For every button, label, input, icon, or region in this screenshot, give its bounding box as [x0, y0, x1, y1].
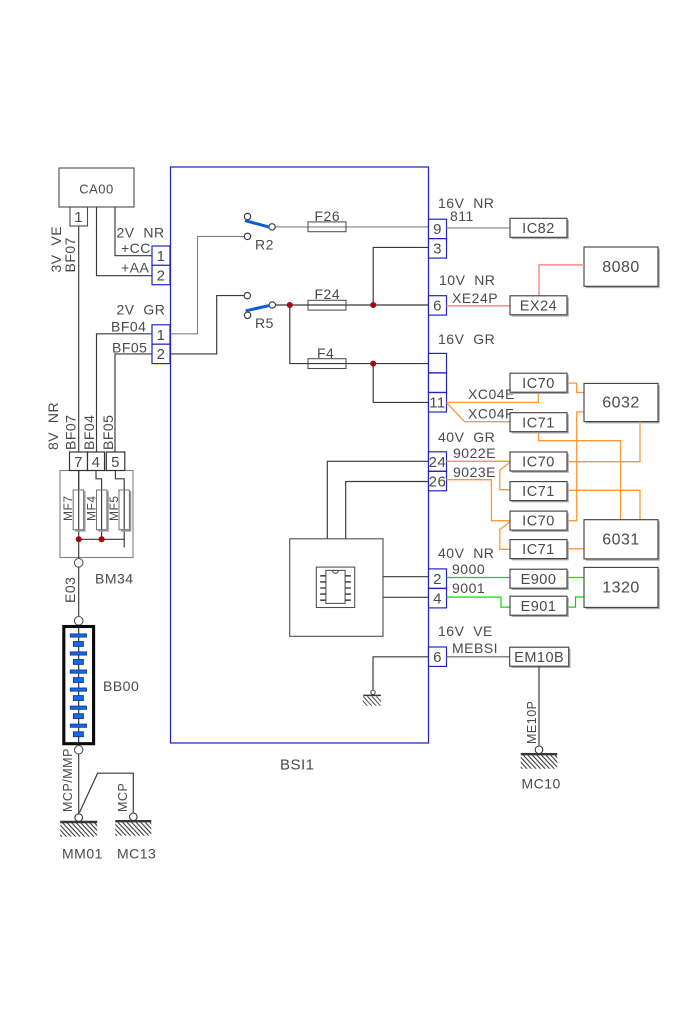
svg-text:BB00: BB00 — [103, 678, 139, 694]
ground MM01 — [48, 814, 108, 838]
wire 9001 — [447, 597, 511, 607]
wire XE24P — [447, 305, 511, 307]
svg-text:40V NR: 40V NR — [438, 545, 494, 561]
svg-text:MF5: MF5 — [107, 496, 121, 522]
svg-text:11: 11 — [429, 395, 446, 412]
unit 6032 — [584, 383, 659, 422]
svg-text:MF4: MF4 — [84, 496, 98, 522]
svg-text:3: 3 — [433, 241, 442, 258]
svg-text:BF05: BF05 — [100, 415, 116, 450]
wire BF04 to relay R2 — [171, 236, 245, 333]
unit IC82 — [510, 218, 568, 238]
wire IC71c to 6031 — [567, 548, 584, 550]
wire pin 26 to module — [346, 482, 429, 539]
svg-text:BF04: BF04 — [81, 415, 97, 450]
IC chip U1 — [316, 567, 354, 607]
unit 1320 — [584, 567, 659, 608]
pin 4 of BM34 — [88, 452, 105, 471]
svg-text:+AA: +AA — [121, 260, 150, 276]
unit 6031 — [584, 520, 659, 560]
unit IC71 b — [510, 482, 568, 502]
pin 1 BF04 of BSI1 — [152, 325, 170, 344]
svg-text:BF07: BF07 — [63, 415, 79, 450]
fuse F26 — [308, 222, 346, 232]
svg-text:IC70: IC70 — [522, 514, 555, 530]
unit 8080 — [584, 247, 659, 287]
fuse MF4 — [97, 490, 109, 531]
fuse F4 — [308, 359, 346, 369]
module box in BSI1 — [290, 539, 383, 637]
svg-text:F26: F26 — [315, 208, 341, 224]
svg-text:811: 811 — [450, 208, 474, 224]
wire module to pin 4 — [383, 596, 429, 598]
svg-text:EM10B: EM10B — [514, 650, 564, 666]
svg-text:8080: 8080 — [602, 259, 640, 276]
ground MC13 — [103, 813, 163, 837]
svg-text:16V VE: 16V VE — [438, 623, 493, 639]
wire MCP/MMP — [78, 754, 80, 814]
svg-text:E03: E03 — [62, 577, 78, 603]
svg-text:MCP: MCP — [116, 783, 130, 812]
fuse MF7 — [73, 490, 85, 531]
svg-text:BSI1: BSI1 — [280, 757, 315, 774]
wire IC71a to 6031 — [539, 432, 621, 520]
unit IC71 a — [510, 413, 568, 433]
pin 16V GR b of BSI1 — [429, 373, 447, 392]
pin 4 of BSI1 — [429, 589, 447, 608]
wire E901 to 1320 — [567, 597, 585, 607]
wire pin 6 MEBSI to internal ground — [373, 657, 429, 690]
wire module to pin 2 — [383, 576, 429, 578]
svg-text:EX24: EX24 — [520, 298, 557, 314]
wire MCP link — [80, 773, 134, 813]
svg-text:F24: F24 — [315, 286, 341, 302]
svg-text:1320: 1320 — [602, 580, 640, 597]
unit CA00 — [59, 168, 134, 207]
svg-text:9022E: 9022E — [453, 445, 496, 461]
pin 11 of BSI1 — [429, 393, 447, 412]
unit E901 — [510, 596, 568, 616]
unit EM10B — [510, 647, 570, 667]
wire 811 — [447, 227, 511, 229]
pin 9 of BSI1 — [429, 219, 447, 238]
svg-text:9001: 9001 — [452, 580, 485, 596]
svg-text:26: 26 — [429, 473, 447, 490]
svg-text:XC04F: XC04F — [468, 406, 514, 422]
wire MEBSI — [447, 656, 511, 658]
svg-text:R5: R5 — [255, 315, 274, 331]
svg-text:R2: R2 — [255, 237, 274, 253]
wire E03 — [78, 567, 80, 616]
svg-text:8V NR: 8V NR — [45, 402, 61, 450]
wire +CC from CA00 — [115, 208, 152, 256]
relay R2 — [244, 213, 275, 239]
battery BB00 — [64, 627, 94, 744]
pin 1 +CC of BSI1 — [152, 246, 170, 265]
svg-text:BF05: BF05 — [112, 340, 147, 356]
svg-text:+CC: +CC — [121, 240, 151, 256]
junction MF7 output — [76, 537, 81, 542]
svg-text:IC70: IC70 — [522, 455, 555, 471]
wire IC71b to 6031 — [567, 490, 640, 519]
svg-text:MM01: MM01 — [62, 846, 103, 862]
svg-text:2V GR: 2V GR — [117, 302, 166, 318]
wire MF7 feed — [78, 452, 80, 539]
pin 26 of BSI1 — [429, 471, 447, 490]
pin 6 MEBSI of BSI1 — [429, 647, 447, 666]
pin 2 +AA of BSI1 — [152, 265, 170, 284]
wire MF7 through — [78, 471, 80, 491]
svg-text:16V GR: 16V GR — [438, 331, 495, 347]
pin 1 of CA00 — [70, 207, 88, 226]
wire R5 to fuse F24 to pin 6 — [276, 304, 429, 306]
junction F4 output — [371, 361, 376, 366]
unit BSI1 outline — [171, 167, 429, 743]
ground MC10 — [509, 746, 569, 770]
wire pin 3 branch — [373, 247, 428, 305]
internal ground of BSI1 — [354, 690, 386, 707]
wire 9022E — [447, 460, 511, 462]
svg-text:MF7: MF7 — [61, 496, 75, 522]
wire 6032 to IC70b — [567, 422, 640, 462]
svg-text:4: 4 — [92, 454, 101, 471]
wire 9022E branch to IC71b — [500, 463, 510, 490]
wire pin 24 to module — [327, 461, 428, 539]
svg-text:6031: 6031 — [602, 531, 640, 548]
wire pin 11 branch — [373, 364, 428, 403]
svg-text:IC70: IC70 — [522, 376, 555, 392]
wire BF05 — [115, 354, 152, 452]
relay R5 — [244, 292, 275, 318]
svg-text:IC82: IC82 — [522, 221, 555, 237]
pin 24 of BSI1 — [429, 452, 447, 471]
wire MF5 feed — [115, 452, 124, 548]
svg-text:2: 2 — [433, 571, 442, 588]
wire +AA from CA00 — [97, 208, 153, 276]
svg-text:CA00: CA00 — [79, 182, 114, 197]
wire BF05 to relay R5 — [171, 296, 245, 354]
svg-text:1: 1 — [157, 327, 166, 344]
fuse F24 — [308, 300, 346, 310]
svg-text:MCP/MMP: MCP/MMP — [61, 748, 75, 812]
wire BF07 3V VE — [78, 227, 80, 453]
wire F4 branch — [290, 305, 429, 364]
pin 2 of BSI1 — [429, 569, 447, 588]
connection circle BM34-E03 — [74, 559, 83, 568]
svg-text:9: 9 — [433, 221, 442, 238]
unit IC70 b — [510, 452, 568, 472]
junction F24 output — [371, 302, 376, 307]
wire XC04F — [447, 403, 511, 422]
wire BM34 output — [78, 539, 80, 558]
svg-text:BF04: BF04 — [111, 319, 146, 335]
svg-text:2: 2 — [157, 346, 166, 363]
wire 6032 to IC70c — [567, 412, 584, 521]
svg-text:E901: E901 — [521, 599, 557, 615]
svg-text:40V GR: 40V GR — [438, 429, 495, 445]
svg-text:MEBSI: MEBSI — [452, 640, 498, 656]
junction MF4 output — [99, 537, 104, 542]
connection circle battery minus — [75, 746, 83, 754]
svg-text:E900: E900 — [521, 572, 557, 588]
wire EX24 to 8080 — [539, 265, 584, 296]
svg-text:9000: 9000 — [452, 561, 485, 577]
svg-text:24: 24 — [429, 454, 447, 471]
unit E900 — [510, 569, 568, 589]
unit IC71 c — [510, 540, 568, 560]
svg-text:6: 6 — [433, 298, 442, 315]
wire BF04 — [97, 334, 153, 452]
wire 9000 — [447, 577, 511, 579]
pin 16V GR a of BSI1 — [429, 353, 447, 372]
svg-text:10V NR: 10V NR — [439, 272, 495, 288]
svg-text:MC10: MC10 — [522, 776, 561, 792]
wire XC04E — [447, 393, 539, 403]
svg-text:IC71: IC71 — [522, 542, 555, 558]
svg-text:2: 2 — [157, 267, 166, 284]
wire fuse output bus — [79, 538, 125, 540]
pin 5 of BM34 — [106, 452, 125, 471]
wire E900 to 1320 — [567, 577, 585, 579]
unit IC70 c — [510, 511, 568, 531]
svg-text:1: 1 — [157, 248, 166, 265]
svg-text:BM34: BM34 — [95, 571, 134, 587]
svg-text:MC13: MC13 — [117, 846, 156, 862]
svg-text:XC04E: XC04E — [468, 386, 515, 402]
svg-text:BF07: BF07 — [62, 237, 78, 272]
svg-text:1: 1 — [74, 209, 83, 226]
pin 7 of BM34 — [70, 452, 88, 471]
svg-text:4: 4 — [433, 591, 442, 608]
pin 2 BF05 of BSI1 — [152, 344, 170, 363]
junction R5-F24 — [287, 302, 292, 307]
svg-text:5: 5 — [111, 454, 120, 471]
unit IC70 a — [510, 373, 568, 393]
wire R2 to fuse F26 to pin 9 — [275, 226, 428, 228]
pin 6 XE24P of BSI1 — [429, 296, 447, 315]
svg-text:IC71: IC71 — [522, 484, 555, 500]
svg-text:F4: F4 — [317, 345, 334, 361]
fuse MF5 — [119, 490, 131, 531]
wire 9023E — [447, 480, 511, 521]
unit BM34 outline — [60, 471, 133, 558]
svg-text:6: 6 — [433, 649, 442, 666]
svg-text:7: 7 — [74, 454, 83, 471]
svg-text:ME10P: ME10P — [525, 701, 539, 745]
unit EX24 — [510, 296, 568, 316]
svg-text:9023E: 9023E — [453, 464, 496, 480]
wire MF4 feed — [96, 452, 102, 539]
svg-text:IC71: IC71 — [522, 415, 555, 431]
connection circle battery plus — [74, 617, 83, 626]
pin 3 of BSI1 — [429, 239, 447, 258]
svg-text:6032: 6032 — [602, 395, 640, 412]
svg-text:2V NR: 2V NR — [117, 225, 165, 241]
svg-text:XE24P: XE24P — [452, 290, 498, 306]
wire 9023E branch to IC71c — [500, 522, 510, 549]
wire ME10P — [538, 666, 540, 746]
wire IC70a to 6032 — [567, 383, 584, 392]
